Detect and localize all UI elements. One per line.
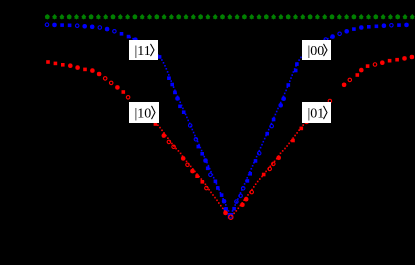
svg-text:|00: |00 — [308, 44, 325, 59]
state label box |10> — [129, 102, 159, 123]
red energy branch: open circle data markers — [69, 55, 414, 214]
green flat energy level: diamond markers — [45, 14, 415, 20]
blue energy branch: filled square data markers — [53, 23, 409, 211]
red energy branch: small theory dots — [157, 124, 304, 216]
red energy branch: filled square data markers — [46, 55, 414, 215]
blue energy branch: open circle data markers — [45, 23, 408, 211]
state label box |01> — [302, 102, 331, 123]
blue energy branch: small theory dots — [129, 37, 331, 215]
blue vertex open square marker — [228, 214, 232, 218]
svg-text:|01: |01 — [308, 106, 325, 121]
svg-text:|10: |10 — [135, 106, 152, 121]
state label box |00> — [302, 40, 331, 60]
green flat energy level: triangle markers — [45, 14, 414, 19]
svg-text:|11: |11 — [135, 44, 151, 59]
state label box |11> — [129, 40, 158, 60]
red vertex open circle marker — [229, 215, 233, 219]
green flat energy level: open circle theory markers — [46, 15, 400, 19]
